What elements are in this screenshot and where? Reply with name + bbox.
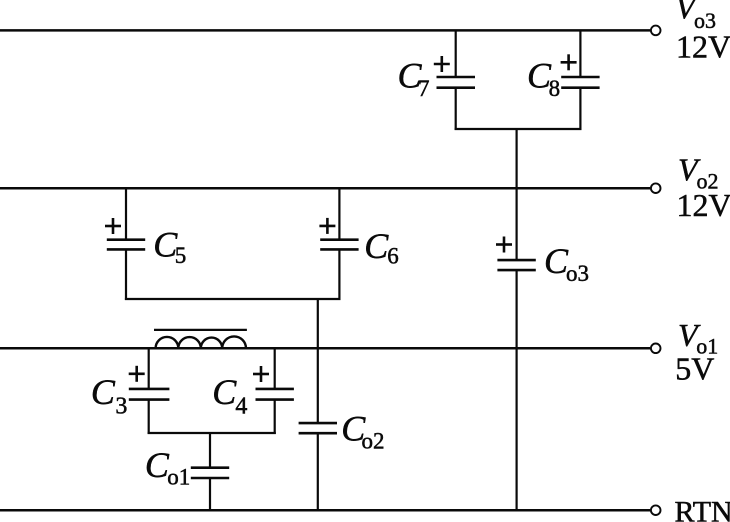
svg-text:8: 8 [549,76,561,101]
capacitor Co1 [191,468,229,478]
polarity + of C7 [434,56,450,72]
label Co2 [341,408,384,453]
svg-text:C: C [212,372,237,412]
label Vo2 [677,152,730,223]
svg-text:3: 3 [115,394,127,420]
svg-text:5: 5 [175,243,187,268]
label C6 [364,226,399,269]
wire junction bar C7-C8 [455,128,582,130]
inductor L [154,330,247,348]
label C3 [91,372,128,420]
wire rail RTN [0,509,650,512]
capacitor Co3 [497,260,535,270]
polarity + of Co3 [496,237,512,253]
polarity + of C8 [561,54,577,70]
svg-text:7: 7 [418,76,430,101]
label Co1 [145,445,190,490]
label Vo3 [676,0,730,64]
wire from Co3 down to RTN rail [515,270,517,510]
label C4 [212,372,247,420]
wire from Co2 down to RTN rail [317,433,319,510]
capacitor C5 [107,188,145,300]
svg-text:RTN: RTN [675,496,730,522]
label C5 [153,225,186,268]
capacitor C4 [256,348,294,434]
capacitor C7 [437,30,476,130]
terminal Vo1 [651,344,661,354]
terminal Vo3 [651,26,661,36]
label Co3 [544,241,589,286]
capacitor C8 [561,30,599,130]
svg-text:C: C [364,226,389,266]
svg-text:o3: o3 [566,261,589,286]
label Vo1 [675,317,718,387]
capacitor Co2 [299,423,337,433]
svg-text:5V: 5V [675,351,714,387]
wire rail Vo2 [0,187,650,190]
wire from Co1 down to RTN rail [209,478,211,510]
polarity + of C4 [253,366,269,382]
wire drop from C5-C6 bar to Co2 [317,299,319,423]
svg-text:o1: o1 [167,465,190,490]
svg-text:C: C [145,445,170,485]
label C7 [398,56,430,101]
svg-text:C: C [91,372,116,412]
terminal RTN [651,505,661,515]
label C8 [527,56,560,101]
polarity + of C6 [319,218,335,234]
svg-text:12V: 12V [676,29,730,65]
wire drop from C7-C8 bar to Co3 [515,129,517,260]
wire junction bar C3-C4 [148,432,276,434]
svg-text:o2: o2 [362,429,385,454]
svg-text:6: 6 [387,244,399,269]
polarity + of C5 [105,218,121,234]
svg-text:12V: 12V [677,187,730,223]
terminal Vo2 [651,183,661,193]
wire rail Vo1 [0,347,650,350]
wire drop from C3-C4 bar to Co1 [209,433,211,468]
svg-text:4: 4 [235,394,247,420]
wire junction bar C5-C6 [125,298,341,300]
capacitor C6 [320,188,358,300]
wire rail Vo3 [0,29,650,32]
capacitor C3 [129,348,170,434]
polarity + of C3 [129,366,145,382]
